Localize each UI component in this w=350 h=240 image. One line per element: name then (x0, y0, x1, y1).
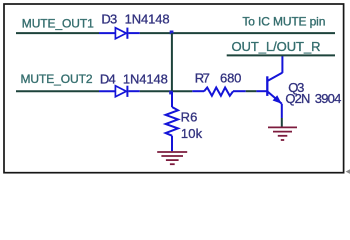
svg-text:D3: D3 (101, 12, 117, 27)
resistor R6 (166, 92, 178, 151)
transistor Q3 (256, 56, 282, 119)
svg-text:Q2N: Q2N (285, 91, 310, 106)
junction (169, 91, 173, 95)
svg-text:1N4148: 1N4148 (123, 72, 168, 87)
svg-text:R7: R7 (195, 71, 210, 86)
wire (246, 90, 257, 92)
svg-text:OUT_L/OUT_R: OUT_L/OUT_R (232, 39, 321, 54)
svg-text:To IC MUTE pin: To IC MUTE pin (242, 14, 325, 28)
wire (16, 90, 99, 92)
svg-text:1N4148: 1N4148 (125, 12, 170, 27)
emitter arrow (Q3) (273, 95, 282, 103)
svg-text:D4: D4 (100, 72, 116, 87)
diode D3 (99, 28, 140, 39)
diode D4 (99, 86, 140, 97)
svg-text:3904: 3904 (315, 91, 342, 106)
svg-text:10k: 10k (181, 126, 203, 141)
resistor R7 (192, 88, 245, 96)
wire (227, 54, 335, 56)
wire (140, 32, 335, 34)
junction (170, 31, 174, 35)
svg-text:MUTE_OUT1: MUTE_OUT1 (22, 16, 94, 30)
wire (171, 33, 173, 91)
svg-text:MUTE_OUT2: MUTE_OUT2 (21, 72, 93, 86)
wire (16, 32, 99, 34)
svg-text:680: 680 (220, 71, 241, 86)
wire (140, 90, 193, 92)
ground (below R6) (157, 152, 187, 164)
svg-text:R6: R6 (181, 109, 198, 124)
corner mark (346, 169, 350, 174)
ground (below Q3) (268, 127, 297, 140)
wire (281, 118, 283, 127)
